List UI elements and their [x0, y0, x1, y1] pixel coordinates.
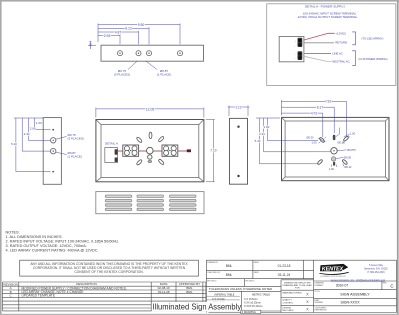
svg-text:01-23-18: 01-23-18: [278, 264, 291, 268]
svg-text:3.40: 3.40: [24, 132, 30, 136]
svg-text:9.90: 9.90: [138, 23, 145, 27]
svg-text:FOR: FOR: [295, 288, 300, 290]
svg-text:03-11-28: 03-11-28: [158, 290, 170, 294]
svg-text:NEUTRAL AC: NEUTRAL AC: [332, 59, 349, 63]
svg-text:CHECKED BY: CHECKED BY: [207, 272, 221, 274]
svg-text:3010-07: 3010-07: [336, 284, 349, 288]
svg-text:1.00: 1.00: [36, 121, 42, 125]
svg-text:1.12: 1.12: [235, 105, 241, 109]
svg-text:DESIGN: DESIGN: [283, 307, 292, 309]
svg-text:MANUFACTURING: MANUFACTURING: [283, 292, 302, 295]
svg-text:+12VDC: +12VDC: [335, 31, 346, 35]
svg-text:DRAWING ARE TO BE USED: DRAWING ARE TO BE USED: [283, 284, 313, 287]
svg-text:2.93: 2.93: [104, 34, 111, 38]
svg-text:1.82: 1.82: [264, 125, 270, 129]
svg-text:0 DRAWING: 0 DRAWING: [242, 311, 256, 314]
svg-text:QUALITY: QUALITY: [283, 299, 293, 302]
svg-text:Ø0.25: Ø0.25: [338, 141, 346, 145]
svg-text:X.XXX ±0.13mm: X.XXX ±0.13mm: [244, 305, 262, 308]
svg-text:C: C: [390, 283, 393, 288]
svg-text:Ø0.875: Ø0.875: [347, 148, 356, 152]
svg-text:BML: BML: [226, 264, 233, 268]
svg-text:5.10: 5.10: [11, 142, 17, 146]
svg-text:DATE: DATE: [254, 271, 260, 274]
svg-text:4.72: 4.72: [311, 111, 317, 115]
svg-text:(TO LED ARRAY): (TO LED ARRAY): [362, 36, 384, 40]
svg-text:BML: BML: [186, 290, 193, 294]
svg-text:(3 PLACES): (3 PLACES): [68, 137, 84, 141]
svg-text:5.40: 5.40: [255, 139, 261, 143]
svg-text:kentexcorporation.com info@k: kentexcorporation.com info@kentexcorpora…: [331, 279, 386, 282]
svg-text:PROJECT: PROJECT: [207, 280, 217, 282]
svg-text:METRIC TABLE: METRIC TABLE: [252, 293, 270, 296]
svg-text:1. ALL DIMENSIONS IN INCHES.: 1. ALL DIMENSIONS IN INCHES.: [6, 235, 63, 239]
svg-text:Ø0.30: Ø0.30: [307, 136, 315, 140]
svg-text:7.92: 7.92: [325, 100, 331, 104]
svg-text:Bessemer, N.H. 03102: Bessemer, N.H. 03102: [364, 268, 388, 271]
svg-text:3. RATED OUTPUT VOLTAGE: 12VDC: 3. RATED OUTPUT VOLTAGE: 12VDC, 700mA.: [6, 244, 87, 248]
svg-text:2.91: 2.91: [259, 132, 265, 136]
svg-text:6.12: 6.12: [125, 27, 132, 31]
svg-text:Ø0.50: Ø0.50: [344, 155, 352, 159]
svg-text:2. RATED INPUT VOLTAGE: INPUT: 2. RATED INPUT VOLTAGE: INPUT 100-240VAC…: [6, 239, 120, 243]
svg-text:(CUSTOMER WIRING): (CUSTOMER WIRING): [359, 57, 388, 61]
svg-text:4. LED ARRAY CURRENT RATING: 4: 4. LED ARRAY CURRENT RATING: 400mA @ 12V…: [6, 248, 99, 252]
svg-text:TITLE: TITLE: [314, 291, 320, 293]
svg-text:NUMBER: NUMBER: [314, 302, 323, 304]
svg-text:1.00: 1.00: [329, 167, 335, 171]
svg-text:5 Jersey Way: 5 Jersey Way: [369, 264, 384, 267]
svg-text:DRAWN BY: DRAWN BY: [207, 261, 218, 264]
svg-text:NUMBER: NUMBER: [314, 285, 323, 287]
svg-text:6.17: 6.17: [317, 105, 323, 109]
svg-text:(1 PLACE): (1 PLACE): [68, 155, 82, 159]
svg-text:03-11-24: 03-11-24: [278, 273, 291, 277]
svg-text:7.10: 7.10: [210, 149, 216, 153]
svg-text:1.00: 1.00: [89, 41, 93, 47]
svg-text:PROJECT: PROJECT: [245, 280, 255, 282]
svg-text:(3 PLACES): (3 PLACES): [114, 73, 130, 77]
svg-text:REV: REV: [383, 283, 388, 285]
svg-text:(1 PLACE): (1 PLACE): [157, 73, 171, 77]
svg-text:Ø0.22: Ø0.22: [344, 165, 352, 169]
svg-text:LINE AC: LINE AC: [332, 52, 343, 56]
svg-text:12VDC 700mA OUTPUT SCREW TERMI: 12VDC 700mA OUTPUT SCREW TERMINAL: [298, 15, 358, 19]
svg-text:REFERENCE: REFERENCE: [314, 310, 327, 312]
svg-text:12.05: 12.05: [146, 107, 155, 111]
svg-text:DIMENSIONS WHICH THE: DIMENSIONS WHICH THE: [284, 282, 311, 284]
svg-text:DETAIL A - POWER SUPPLY: DETAIL A - POWER SUPPLY: [305, 4, 345, 8]
svg-text:KENTEX: KENTEX: [322, 266, 345, 272]
svg-text:2.06: 2.06: [30, 127, 36, 131]
svg-text:DETAIL A: DETAIL A: [105, 141, 118, 145]
svg-text:UPDATED TEMPLATE: UPDATED TEMPLATE: [22, 294, 56, 298]
svg-text:RETURN: RETURN: [335, 41, 347, 45]
svg-text:TOLERANCES UNLESS OTHERWISE NO: TOLERANCES UNLESS OTHERWISE NOTED: [209, 287, 273, 291]
svg-text:Illuminated Sign Assembly: Illuminated Sign Assembly: [153, 302, 242, 311]
svg-text:P: 800-452-2323: P: 800-452-2323: [367, 272, 385, 274]
svg-text:CONTROL: CONTROL: [283, 302, 294, 304]
svg-text:RECORDS: RECORDS: [283, 310, 294, 312]
svg-text:1.00: 1.00: [312, 141, 318, 145]
svg-text:BML: BML: [226, 273, 233, 277]
svg-text:SIGN ASSEMBLY: SIGN ASSEMBLY: [340, 293, 370, 297]
svg-text:IMPERIAL TABLE: IMPERIAL TABLE: [215, 293, 235, 296]
svg-text:NOTES:: NOTES:: [6, 230, 20, 234]
svg-text:1.00: 1.00: [350, 131, 356, 135]
svg-text:DATE: DATE: [254, 261, 260, 264]
svg-text:SIGN-XXXX: SIGN-XXXX: [340, 300, 360, 304]
svg-text:4.87: 4.87: [115, 30, 122, 34]
svg-text:CONSENT OF THE KENTEX CORPORAT: CONSENT OF THE KENTEX CORPORATION.: [74, 270, 143, 274]
